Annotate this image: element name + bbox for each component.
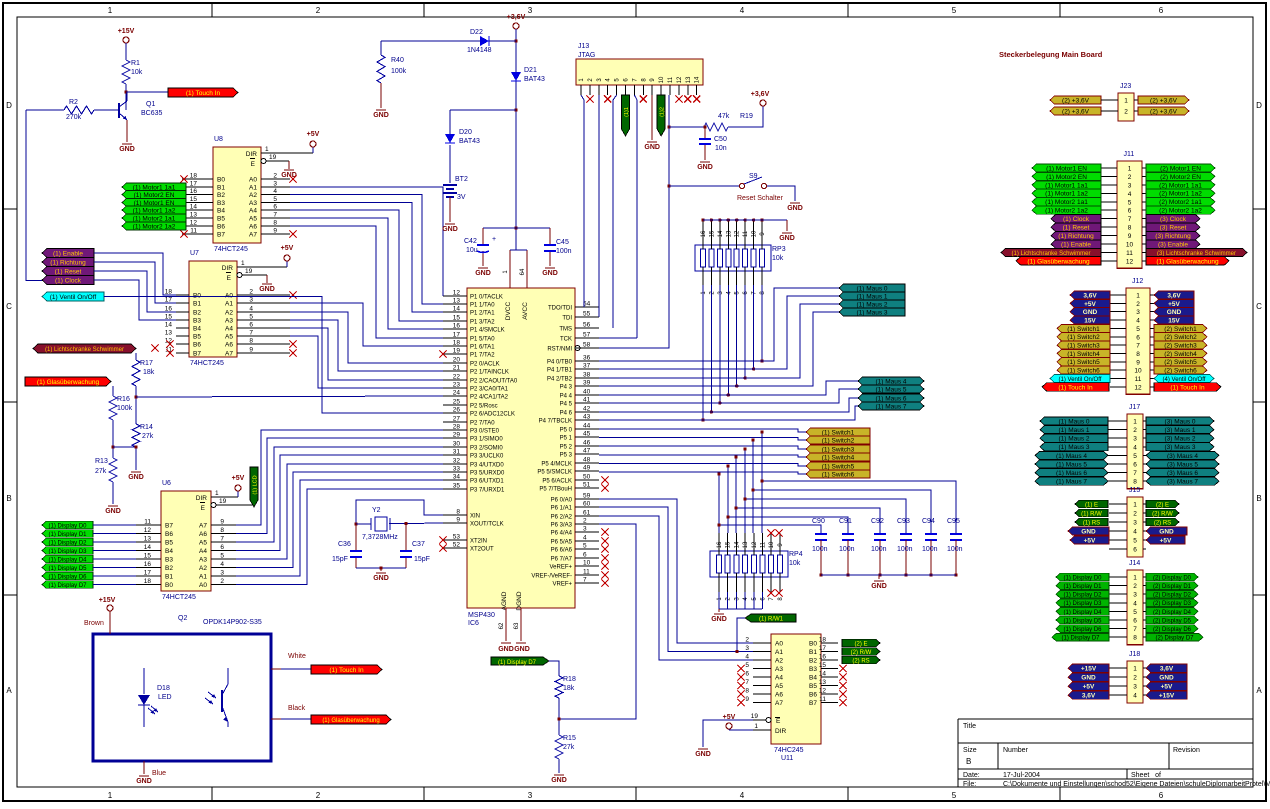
svg-text:61: 61 [583, 510, 591, 517]
svg-text:Date:: Date: [963, 772, 980, 779]
svg-text:(2) Motor1 EN: (2) Motor1 EN [1160, 165, 1201, 172]
svg-text:R16: R16 [117, 396, 130, 403]
svg-text:6: 6 [745, 671, 749, 678]
svg-text:TDI: TDI [562, 316, 572, 322]
svg-text:R14: R14 [140, 424, 153, 431]
svg-text:P5 2: P5 2 [560, 445, 573, 451]
svg-text:GND: GND [105, 508, 121, 515]
svg-text:27k: 27k [95, 468, 107, 475]
svg-text:12: 12 [144, 527, 152, 534]
svg-text:11: 11 [819, 696, 826, 703]
svg-text:+15V: +15V [99, 597, 116, 604]
svg-text:A5: A5 [249, 216, 257, 223]
svg-text:(1) Richtung: (1) Richtung [50, 259, 86, 266]
svg-text:4: 4 [1128, 191, 1132, 198]
svg-text:P1 6/TA1: P1 6/TA1 [470, 345, 495, 351]
svg-text:2: 2 [583, 518, 587, 525]
svg-text:(1) Ventil On/Off: (1) Ventil On/Off [1059, 377, 1102, 383]
svg-text:15: 15 [709, 230, 715, 237]
svg-text:Number: Number [1003, 747, 1029, 754]
svg-text:30: 30 [453, 441, 461, 448]
svg-text:1: 1 [754, 723, 758, 730]
svg-text:74HCT245: 74HCT245 [214, 246, 248, 253]
svg-text:A4: A4 [225, 326, 233, 333]
svg-text:GND: GND [373, 112, 389, 119]
svg-text:GND: GND [542, 270, 558, 277]
svg-text:B7: B7 [165, 523, 173, 530]
svg-text:(2) Switch3: (2) Switch3 [1164, 343, 1197, 350]
svg-text:4: 4 [1133, 529, 1137, 536]
svg-text:B1: B1 [193, 301, 201, 308]
svg-text:2: 2 [1124, 109, 1128, 116]
svg-text:11: 11 [761, 541, 767, 548]
svg-text:(1)2: (1)2 [660, 107, 666, 117]
svg-text:B6: B6 [217, 224, 225, 231]
svg-text:A5: A5 [775, 683, 783, 690]
svg-text:P4 2/TB2: P4 2/TB2 [547, 377, 573, 383]
svg-text:15: 15 [190, 196, 198, 203]
svg-text:1: 1 [108, 6, 113, 15]
svg-text:57: 57 [583, 332, 591, 339]
svg-text:+15V: +15V [1159, 693, 1175, 700]
svg-text:20: 20 [453, 357, 461, 364]
svg-text:(1) Touch In: (1) Touch In [1170, 384, 1205, 391]
svg-text:P3 1/SIMO0: P3 1/SIMO0 [470, 437, 503, 443]
svg-text:VeREF+: VeREF+ [549, 565, 572, 571]
svg-text:LED: LED [158, 694, 172, 701]
svg-text:15V: 15V [1084, 317, 1096, 324]
svg-text:9: 9 [1128, 233, 1132, 240]
svg-text:+5V: +5V [307, 131, 320, 138]
svg-text:BAT43: BAT43 [459, 138, 480, 145]
svg-text:P1 4/SMCLK: P1 4/SMCLK [470, 328, 505, 334]
svg-text:3: 3 [1133, 436, 1137, 443]
svg-text:A: A [1256, 686, 1262, 695]
svg-text:P2 2/CAOUT/TA0: P2 2/CAOUT/TA0 [470, 379, 518, 385]
svg-text:6: 6 [1133, 462, 1137, 469]
svg-text:J14: J14 [1129, 560, 1140, 567]
svg-text:+3,6V: +3,6V [751, 91, 770, 98]
svg-text:GND: GND [119, 146, 135, 153]
svg-text:BC635: BC635 [141, 110, 163, 117]
svg-text:18: 18 [190, 173, 198, 180]
svg-text:1: 1 [215, 490, 219, 497]
svg-text:15V: 15V [1168, 317, 1180, 324]
svg-text:12: 12 [735, 230, 741, 237]
svg-text:15: 15 [819, 662, 827, 669]
svg-text:E: E [227, 275, 232, 282]
svg-text:14: 14 [819, 671, 827, 678]
svg-text:(1) Glasüberwachung: (1) Glasüberwachung [322, 718, 379, 724]
svg-text:3: 3 [1133, 684, 1137, 691]
svg-text:A2: A2 [775, 658, 783, 665]
svg-text:Reset Schalter: Reset Schalter [737, 195, 784, 202]
svg-text:(2) Display D1: (2) Display D1 [1153, 584, 1192, 590]
svg-text:A5: A5 [199, 540, 207, 547]
svg-text:(2) Display D5: (2) Display D5 [1153, 618, 1192, 624]
svg-text:TDO/TDI: TDO/TDI [548, 306, 572, 312]
svg-text:DIR: DIR [196, 495, 208, 502]
svg-text:A7: A7 [775, 700, 783, 707]
svg-text:(2) E: (2) E [1156, 502, 1169, 508]
svg-text:3: 3 [273, 181, 277, 188]
svg-text:11: 11 [583, 569, 590, 576]
svg-text:A7: A7 [225, 351, 233, 358]
svg-text:XOUT/TCLK: XOUT/TCLK [470, 522, 504, 528]
svg-text:+15V: +15V [1081, 666, 1097, 673]
svg-text:19: 19 [245, 268, 253, 275]
svg-text:D21: D21 [524, 67, 537, 74]
svg-text:(1) Display D2: (1) Display D2 [1063, 593, 1102, 599]
svg-text:A6: A6 [775, 692, 783, 699]
svg-text:(3) Maus 4: (3) Maus 4 [1167, 453, 1198, 460]
svg-text:10k: 10k [131, 69, 143, 76]
svg-text:A3: A3 [199, 557, 207, 564]
svg-text:B7: B7 [193, 351, 201, 358]
svg-text:12: 12 [1134, 384, 1142, 391]
svg-text:41: 41 [583, 397, 591, 404]
svg-text:A2: A2 [199, 565, 207, 572]
svg-text:11: 11 [743, 230, 749, 237]
svg-text:C:\Dokumente und Einstellungen: C:\Dokumente und Einstellungen\schod52\E… [1003, 781, 1270, 788]
svg-text:74HCT245: 74HCT245 [190, 360, 224, 367]
svg-text:(3) Clock: (3) Clock [1160, 216, 1187, 223]
svg-text:16: 16 [819, 654, 827, 661]
svg-text:17: 17 [190, 181, 198, 188]
svg-text:B3: B3 [217, 200, 225, 207]
svg-text:1: 1 [1133, 575, 1137, 582]
svg-text:GND: GND [551, 777, 567, 784]
svg-text:12: 12 [677, 76, 683, 83]
svg-text:XT2OUT: XT2OUT [470, 547, 494, 553]
svg-text:Blue: Blue [152, 770, 166, 777]
svg-text:14: 14 [734, 541, 740, 548]
svg-text:(1) E: (1) E [1085, 502, 1098, 508]
svg-text:J11: J11 [1124, 151, 1135, 158]
svg-text:A6: A6 [225, 342, 233, 349]
svg-text:B1: B1 [165, 574, 173, 581]
svg-text:J18: J18 [1129, 651, 1140, 658]
svg-text:1: 1 [1133, 666, 1137, 673]
svg-text:3: 3 [220, 570, 224, 577]
svg-text:13: 13 [165, 330, 173, 337]
svg-text:6: 6 [1159, 791, 1164, 800]
svg-text:(1) Display D1: (1) Display D1 [1063, 584, 1102, 590]
svg-text:6: 6 [583, 552, 587, 559]
svg-text:7: 7 [1136, 343, 1140, 350]
svg-text:3V: 3V [457, 194, 466, 201]
svg-text:R17: R17 [140, 360, 153, 367]
svg-text:D20: D20 [459, 129, 472, 136]
svg-text:GND: GND [779, 235, 795, 242]
svg-text:6: 6 [249, 322, 253, 329]
svg-text:7: 7 [273, 212, 277, 219]
svg-text:10n: 10n [715, 145, 727, 152]
svg-text:B1: B1 [809, 649, 817, 656]
svg-text:R13: R13 [95, 458, 108, 465]
svg-text:DIR: DIR [222, 265, 234, 272]
svg-text:Sheet of: Sheet of [1131, 772, 1161, 779]
svg-text:(1) Maus 3: (1) Maus 3 [1058, 444, 1089, 451]
svg-text:P1 0/TACLK: P1 0/TACLK [470, 295, 503, 301]
svg-text:Brown: Brown [84, 620, 104, 627]
svg-text:GND: GND [514, 646, 530, 653]
svg-text:(3) Maus 0: (3) Maus 0 [1164, 418, 1195, 425]
svg-text:OPDK14P902-S35: OPDK14P902-S35 [203, 619, 262, 626]
svg-text:(1) Maus 3: (1) Maus 3 [856, 309, 887, 316]
svg-text:A4: A4 [199, 548, 207, 555]
svg-text:12: 12 [453, 290, 461, 297]
svg-text:A1: A1 [249, 185, 257, 192]
svg-text:P3 7/URXD1: P3 7/URXD1 [470, 488, 505, 494]
svg-text:13: 13 [819, 679, 827, 686]
svg-text:+5V: +5V [1084, 537, 1096, 544]
svg-text:2: 2 [316, 6, 321, 15]
svg-text:33: 33 [453, 466, 461, 473]
svg-text:(1) Maus 6: (1) Maus 6 [875, 395, 906, 402]
svg-text:53: 53 [453, 534, 461, 541]
svg-text:C91: C91 [839, 518, 852, 525]
svg-text:AGND: AGND [501, 591, 508, 610]
svg-text:3: 3 [1133, 520, 1137, 527]
svg-text:37: 37 [583, 363, 591, 370]
svg-text:(1) LCD: (1) LCD [253, 475, 259, 494]
svg-text:3: 3 [249, 297, 253, 304]
svg-text:P3 2/SOMI0: P3 2/SOMI0 [470, 446, 503, 452]
svg-text:C93: C93 [897, 518, 910, 525]
svg-text:C92: C92 [871, 518, 884, 525]
svg-text:+5V: +5V [1084, 301, 1096, 308]
svg-text:(2) Switch1: (2) Switch1 [1164, 326, 1197, 333]
svg-text:(1) Reset: (1) Reset [55, 268, 82, 275]
svg-text:2: 2 [273, 173, 277, 180]
svg-text:GND: GND [1081, 675, 1096, 682]
svg-text:(2) Switch6: (2) Switch6 [1164, 368, 1197, 375]
svg-text:A7: A7 [249, 232, 257, 239]
svg-text:Title: Title [963, 723, 976, 730]
svg-text:File:: File: [963, 781, 976, 788]
svg-text:2: 2 [1128, 174, 1132, 181]
svg-text:GND: GND [697, 164, 713, 171]
svg-text:(1) Display D6: (1) Display D6 [1063, 627, 1102, 633]
svg-text:J17: J17 [1129, 404, 1140, 411]
svg-text:5: 5 [952, 6, 957, 15]
svg-text:MSP430: MSP430 [468, 612, 495, 619]
svg-text:GND: GND [498, 646, 514, 653]
svg-text:8: 8 [1133, 479, 1137, 486]
svg-text:1: 1 [1133, 502, 1137, 509]
svg-text:IC6: IC6 [468, 620, 479, 627]
svg-text:23: 23 [453, 382, 461, 389]
svg-text:48: 48 [583, 457, 591, 464]
svg-text:R19: R19 [740, 113, 753, 120]
svg-text:B0: B0 [165, 582, 173, 589]
svg-text:S9: S9 [749, 173, 758, 180]
svg-text:J23: J23 [1120, 83, 1131, 90]
svg-text:P2 1/TAINCLK: P2 1/TAINCLK [470, 370, 509, 376]
svg-text:B3: B3 [809, 666, 817, 673]
svg-text:VREF+: VREF+ [552, 582, 572, 588]
svg-text:(1)1: (1)1 [624, 107, 630, 117]
svg-text:(2) Display D6: (2) Display D6 [1153, 627, 1192, 633]
svg-text:B3: B3 [193, 318, 201, 325]
svg-text:10u: 10u [466, 247, 478, 254]
svg-text:(1) Clock: (1) Clock [55, 277, 82, 284]
svg-text:(1) Maus 6: (1) Maus 6 [1056, 470, 1087, 477]
svg-text:13: 13 [144, 536, 152, 543]
svg-text:2: 2 [249, 289, 253, 296]
svg-text:P5 4/MCLK: P5 4/MCLK [541, 462, 572, 468]
svg-text:XT2IN: XT2IN [470, 539, 487, 545]
svg-text:100n: 100n [812, 546, 828, 553]
svg-text:14: 14 [190, 204, 198, 211]
svg-text:R15: R15 [563, 735, 576, 742]
svg-text:1: 1 [1133, 419, 1137, 426]
svg-text:27k: 27k [563, 744, 575, 751]
svg-text:C: C [1256, 302, 1262, 311]
svg-text:2: 2 [316, 791, 321, 800]
svg-text:U6: U6 [162, 480, 171, 487]
svg-text:D: D [1256, 101, 1262, 110]
svg-text:(1) Display D7: (1) Display D7 [1061, 636, 1100, 642]
svg-text:(1) Display D1: (1) Display D1 [48, 532, 87, 538]
svg-text:GND: GND [259, 286, 275, 293]
svg-text:(1) Motor2 EN: (1) Motor2 EN [1046, 174, 1087, 181]
svg-text:6: 6 [1136, 334, 1140, 341]
svg-text:(3) Lichtschranke Schwimmer: (3) Lichtschranke Schwimmer [1157, 251, 1236, 257]
svg-text:8: 8 [220, 527, 224, 534]
svg-text:P6 4/A4: P6 4/A4 [551, 531, 573, 537]
svg-text:B6: B6 [193, 342, 201, 349]
svg-text:10: 10 [752, 230, 758, 237]
svg-text:32: 32 [453, 458, 461, 465]
svg-text:GND: GND [1159, 528, 1174, 535]
svg-text:(1) Switch3: (1) Switch3 [1067, 343, 1100, 350]
svg-text:9: 9 [1136, 359, 1140, 366]
svg-text:18k: 18k [563, 685, 575, 692]
svg-text:C37: C37 [412, 541, 425, 548]
svg-text:C50: C50 [714, 136, 727, 143]
svg-text:P3 0/STE0: P3 0/STE0 [470, 429, 500, 435]
svg-text:(2) Display D3: (2) Display D3 [1153, 601, 1192, 607]
svg-text:17: 17 [165, 297, 173, 304]
svg-text:5: 5 [1133, 538, 1137, 545]
svg-text:(1) Motor2 1a2: (1) Motor2 1a2 [1045, 208, 1088, 215]
svg-text:12: 12 [752, 541, 758, 548]
svg-text:P4 4: P4 4 [560, 394, 573, 400]
svg-text:100k: 100k [117, 405, 133, 412]
svg-text:74HC245: 74HC245 [774, 747, 804, 754]
svg-text:P6 6/A6: P6 6/A6 [551, 548, 573, 554]
svg-text:17: 17 [144, 570, 152, 577]
svg-text:TCK: TCK [560, 337, 572, 343]
svg-text:9: 9 [220, 519, 224, 526]
svg-text:5: 5 [583, 543, 587, 550]
svg-text:P5 7/TBouH: P5 7/TBouH [539, 487, 572, 493]
svg-text:Y2: Y2 [372, 507, 381, 514]
svg-text:P2 7/TA0: P2 7/TA0 [470, 421, 495, 427]
svg-text:15pF: 15pF [332, 556, 348, 563]
svg-text:(2) Motor1 1a1: (2) Motor1 1a1 [1159, 182, 1202, 189]
svg-text:P1 5/TA0: P1 5/TA0 [470, 337, 495, 343]
svg-text:9: 9 [745, 696, 749, 703]
svg-text:B: B [1256, 494, 1261, 503]
svg-text:B1: B1 [217, 185, 225, 192]
svg-text:4: 4 [1133, 444, 1137, 451]
svg-text:B0: B0 [217, 177, 225, 184]
svg-text:GND: GND [475, 270, 491, 277]
svg-text:(1) Motor1 1a2: (1) Motor1 1a2 [1045, 191, 1088, 198]
svg-text:7: 7 [220, 536, 224, 543]
svg-text:4: 4 [745, 654, 749, 661]
svg-text:6: 6 [1133, 547, 1137, 554]
svg-text:(2) Motor2 EN: (2) Motor2 EN [1160, 174, 1201, 181]
svg-text:(2) Display D4: (2) Display D4 [1153, 610, 1192, 616]
svg-text:VREF-/VeREF-: VREF-/VeREF- [531, 574, 572, 580]
svg-text:(1) Maus 2: (1) Maus 2 [1058, 436, 1089, 443]
svg-text:(1) Glasüberwachung: (1) Glasüberwachung [1027, 258, 1090, 265]
svg-text:4: 4 [1136, 318, 1140, 325]
svg-text:5: 5 [952, 791, 957, 800]
svg-text:A3: A3 [225, 318, 233, 325]
svg-text:A7: A7 [199, 523, 207, 530]
svg-text:P1 2/TA1: P1 2/TA1 [470, 311, 495, 317]
svg-text:B2: B2 [809, 658, 817, 665]
svg-text:DIR: DIR [775, 728, 787, 735]
svg-text:(1) Switch1: (1) Switch1 [1067, 326, 1100, 333]
svg-text:(3) Maus 5: (3) Maus 5 [1167, 461, 1198, 468]
svg-text:P2 6/ADC12CLK: P2 6/ADC12CLK [470, 412, 515, 418]
svg-text:16: 16 [701, 230, 707, 237]
svg-text:(1) Touch In: (1) Touch In [329, 667, 364, 674]
svg-text:(2) +3,6V: (2) +3,6V [1150, 108, 1178, 115]
svg-text:8: 8 [456, 509, 460, 516]
svg-text:(1) Display D4: (1) Display D4 [1063, 610, 1102, 616]
svg-text:6: 6 [273, 204, 277, 211]
svg-text:(2) R/W: (2) R/W [1152, 511, 1173, 517]
svg-text:64: 64 [520, 268, 526, 275]
svg-text:GND: GND [128, 474, 144, 481]
svg-text:3,6V: 3,6V [1082, 693, 1096, 700]
svg-text:40: 40 [583, 389, 591, 396]
svg-text:B3: B3 [165, 557, 173, 564]
svg-text:(1) RS: (1) RS [1083, 520, 1100, 526]
svg-text:(1) Switch6: (1) Switch6 [822, 471, 855, 478]
svg-text:(1) Display D5: (1) Display D5 [1063, 618, 1102, 624]
svg-text:C36: C36 [338, 541, 351, 548]
svg-text:5: 5 [273, 196, 277, 203]
svg-text:5: 5 [1133, 453, 1137, 460]
svg-text:59: 59 [583, 493, 591, 500]
svg-text:A1: A1 [225, 301, 233, 308]
svg-text:P1 7/TA2: P1 7/TA2 [470, 353, 495, 359]
svg-text:12: 12 [819, 688, 827, 695]
svg-text:RST/NMI: RST/NMI [547, 347, 572, 353]
svg-text:3: 3 [745, 645, 749, 652]
svg-text:3: 3 [1136, 309, 1140, 316]
svg-text:100n: 100n [947, 546, 963, 553]
svg-text:A6: A6 [199, 531, 207, 538]
svg-text:15: 15 [453, 315, 461, 322]
svg-text:(1) Maus 1: (1) Maus 1 [856, 293, 887, 300]
svg-text:A4: A4 [775, 675, 783, 682]
svg-text:P4 6: P4 6 [560, 411, 573, 417]
svg-text:D: D [6, 101, 12, 110]
svg-text:5: 5 [745, 662, 749, 669]
svg-text:P6 1/A1: P6 1/A1 [551, 506, 573, 512]
svg-text:17-Jul-2004: 17-Jul-2004 [1003, 772, 1040, 779]
svg-text:3,6V: 3,6V [1083, 292, 1097, 299]
